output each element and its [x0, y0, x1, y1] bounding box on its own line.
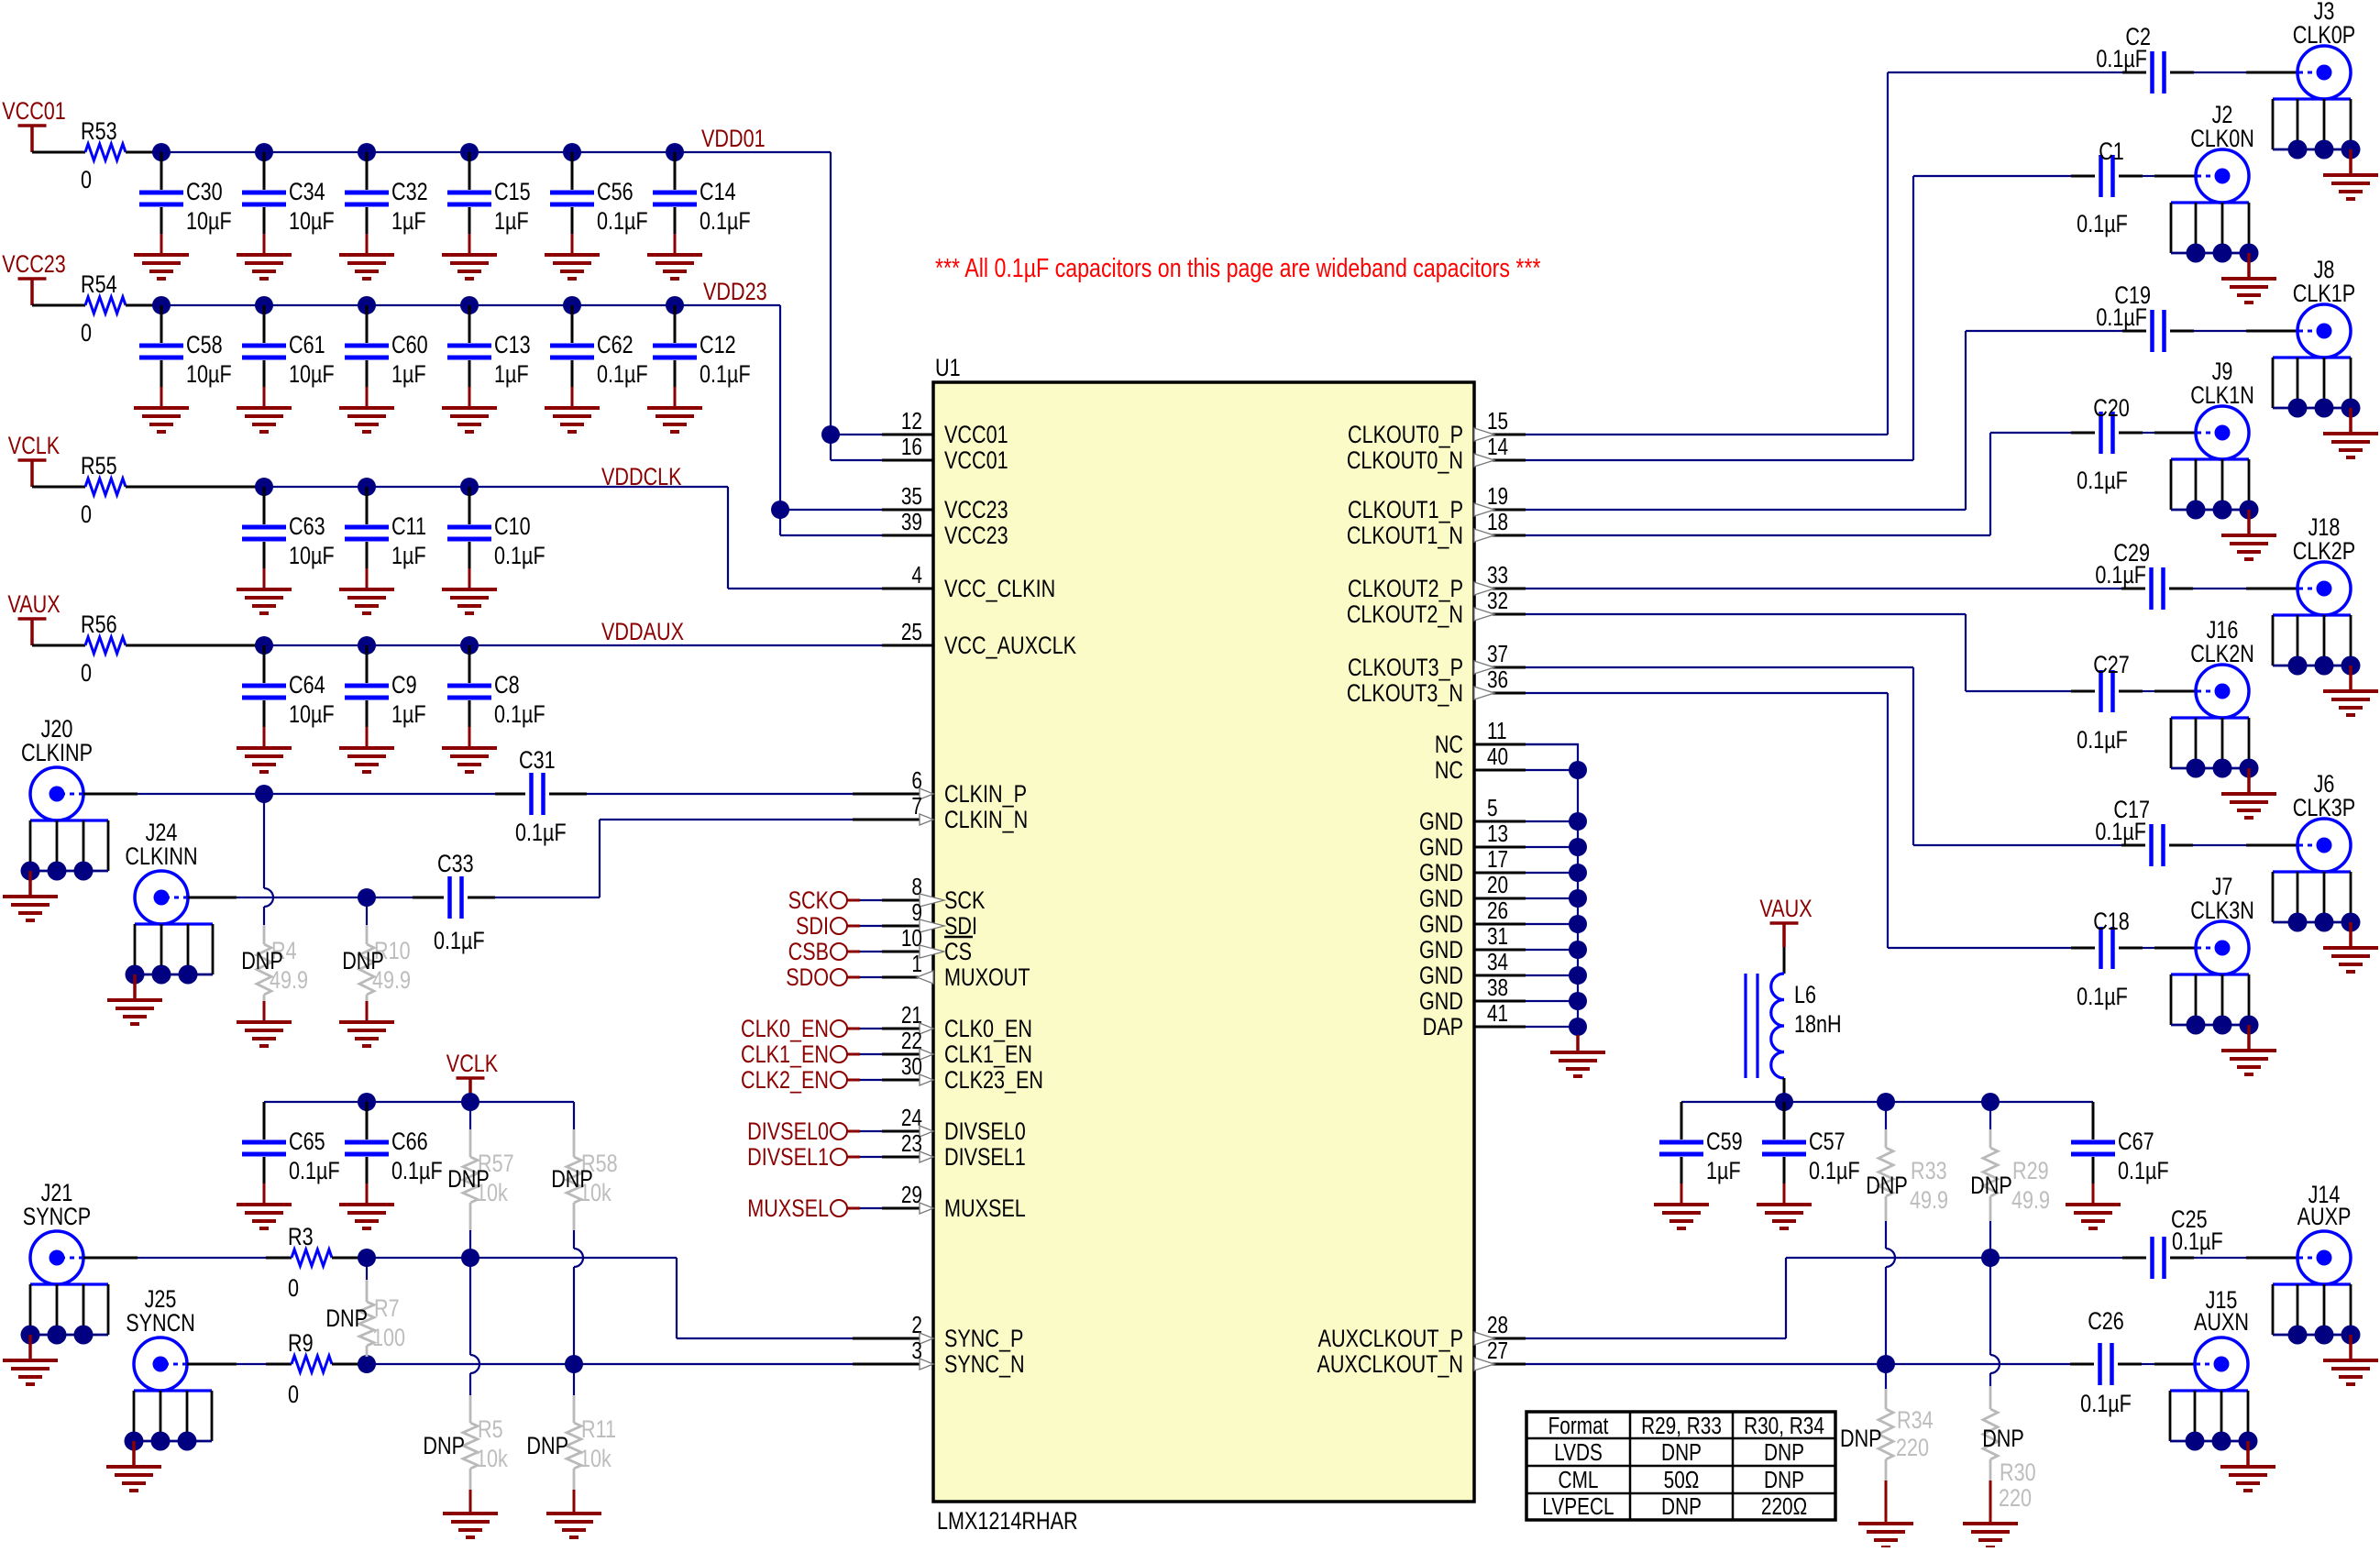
- svg-text:SDO: SDO: [786, 964, 829, 992]
- svg-text:LVPECL: LVPECL: [1542, 1493, 1614, 1520]
- svg-text:17: 17: [1487, 846, 1508, 873]
- power symbol VCLK: [8, 433, 61, 487]
- capacitor C33 0.1µF: [434, 851, 485, 955]
- svg-text:LMX1214RHAR: LMX1214RHAR: [937, 1508, 1078, 1535]
- capacitor C67 0.1µF: [2071, 1102, 2169, 1205]
- capacitor C18 0.1µF: [2077, 908, 2130, 1011]
- ground: [237, 1205, 292, 1228]
- off-page port CLK0_EN: [741, 1016, 882, 1043]
- wire CLKOUT2_P: [1526, 588, 2297, 589]
- svg-text:GND: GND: [1419, 911, 1463, 939]
- svg-text:DIVSEL0: DIVSEL0: [747, 1118, 829, 1146]
- svg-text:GND: GND: [1419, 834, 1463, 862]
- svg-text:C1: C1: [2099, 138, 2124, 166]
- svg-text:220: 220: [1999, 1485, 2032, 1513]
- capacitor C59 1µF: [1659, 1102, 1743, 1205]
- svg-text:0.1µF: 0.1µF: [494, 543, 545, 570]
- ground: [443, 1513, 498, 1537]
- U1 pin 5 GND: [1419, 795, 1526, 836]
- svg-text:SYNCN: SYNCN: [126, 1310, 195, 1337]
- connector J7 CLK3N: [2171, 874, 2276, 1074]
- svg-text:VCC01: VCC01: [2, 98, 66, 126]
- svg-text:28: 28: [1487, 1312, 1508, 1338]
- wire VAUX bus: [1681, 1093, 2093, 1111]
- ground: [647, 255, 702, 279]
- svg-text:C33: C33: [437, 851, 474, 878]
- svg-text:14: 14: [1487, 434, 1508, 460]
- U1 pin 24 DIVSEL0: [882, 1105, 1026, 1146]
- off-page port SCK: [788, 887, 882, 915]
- U1 pin 31 GND: [1419, 923, 1526, 964]
- U1 pin 32 CLKOUT2_N: [1347, 588, 1526, 629]
- svg-text:R5: R5: [478, 1416, 503, 1444]
- svg-text:SCK: SCK: [788, 887, 830, 915]
- svg-text:0: 0: [81, 660, 92, 688]
- ground: [339, 408, 394, 432]
- off-page port MUXSEL: [747, 1195, 882, 1223]
- wire NC-GND-DAP bus: [1526, 744, 1587, 1052]
- U1 pin 12 VCC01: [882, 408, 1008, 449]
- svg-text:CLKOUT3_N: CLKOUT3_N: [1347, 680, 1463, 708]
- svg-text:25: 25: [901, 619, 922, 645]
- capacitor C27 0.1µF: [2077, 652, 2130, 754]
- svg-text:C63: C63: [289, 513, 325, 541]
- svg-text:CLKOUT0_N: CLKOUT0_N: [1347, 447, 1463, 475]
- wire CLKOUT0_N: [1526, 176, 2196, 460]
- svg-text:0: 0: [81, 167, 92, 194]
- ground: [237, 589, 292, 613]
- svg-text:CML: CML: [1559, 1467, 1599, 1493]
- svg-text:VAUX: VAUX: [1759, 896, 1812, 923]
- wire CLKOUT2_N: [1526, 614, 2196, 691]
- svg-text:CLKOUT0_P: CLKOUT0_P: [1348, 422, 1463, 449]
- wire CLKOUT3_P: [1526, 667, 2297, 845]
- capacitor C58 10µF: [139, 305, 232, 408]
- resistor R34 DNP 220: [1840, 1364, 1934, 1524]
- U1 pin 27 AUXCLKOUT_N: [1317, 1337, 1526, 1379]
- capacitor C12 0.1µF: [653, 305, 751, 408]
- svg-text:CLKIN_N: CLKIN_N: [944, 807, 1028, 834]
- off-page port SDO: [786, 964, 882, 992]
- svg-text:35: 35: [901, 483, 922, 510]
- svg-text:CLK23_EN: CLK23_EN: [944, 1067, 1043, 1095]
- svg-text:C10: C10: [494, 513, 531, 541]
- svg-text:1: 1: [911, 951, 922, 977]
- wire CLKOUT1_N: [1526, 433, 2196, 535]
- ground: [339, 255, 394, 279]
- U1 pin 2 SYNC_P: [882, 1312, 1023, 1353]
- resistor R3 0: [83, 1224, 367, 1303]
- svg-text:C66: C66: [391, 1128, 428, 1156]
- svg-text:C14: C14: [700, 179, 736, 206]
- svg-text:0.1µF: 0.1µF: [2077, 727, 2128, 754]
- capacitor C63 10µF: [242, 487, 335, 589]
- ground: [2066, 1205, 2121, 1228]
- svg-text:10µF: 10µF: [289, 208, 335, 236]
- svg-text:MUXOUT: MUXOUT: [944, 964, 1030, 992]
- svg-text:DNP: DNP: [342, 948, 384, 975]
- power symbol VCC01: [2, 98, 66, 152]
- ground: [1654, 1205, 1709, 1228]
- U1 pin 14 CLKOUT0_N: [1347, 434, 1526, 475]
- ground: [442, 589, 497, 613]
- U1 pin 19 CLKOUT1_P: [1348, 483, 1526, 524]
- U1 pin 16 VCC01: [882, 434, 1008, 475]
- svg-text:220Ω: 220Ω: [1761, 1493, 1807, 1520]
- wire CLKINN: [188, 820, 882, 907]
- ground: [237, 408, 292, 432]
- U1 pin 30 CLK23_EN: [882, 1053, 1043, 1095]
- capacitor C26 0.1µF: [2080, 1308, 2132, 1418]
- svg-text:0.1µF: 0.1µF: [597, 361, 648, 389]
- connector J16 CLK2N: [2171, 617, 2276, 818]
- svg-text:39: 39: [901, 509, 922, 535]
- U1 pin 1 MUXOUT: [882, 951, 1030, 992]
- svg-text:R34: R34: [1897, 1407, 1934, 1435]
- resistor R58 DNP 10k: [551, 1102, 617, 1364]
- svg-text:GND: GND: [1419, 886, 1463, 913]
- svg-text:DNP: DNP: [1764, 1439, 1804, 1466]
- ground: [1858, 1524, 1913, 1547]
- svg-text:R3: R3: [288, 1224, 314, 1251]
- svg-text:0.1µF: 0.1µF: [391, 1158, 443, 1185]
- connector J25 SYNCN: [106, 1286, 212, 1491]
- ground: [647, 408, 702, 432]
- svg-text:1µF: 1µF: [391, 701, 426, 729]
- U1 pin 3 SYNC_N: [882, 1337, 1025, 1379]
- U1 pin 26 GND: [1419, 897, 1526, 939]
- svg-text:220: 220: [1896, 1435, 1929, 1462]
- table output format options: [1526, 1412, 1835, 1520]
- connector J6 CLK3P: [2273, 771, 2378, 972]
- U1 pin 6 CLKIN_P: [882, 767, 1027, 809]
- U1 pin 15 CLKOUT0_P: [1348, 408, 1526, 449]
- svg-text:VCC_CLKIN: VCC_CLKIN: [944, 576, 1055, 603]
- svg-text:CLKOUT1_N: CLKOUT1_N: [1347, 523, 1463, 550]
- wire SYNCN: [358, 1355, 882, 1373]
- svg-text:38: 38: [1487, 974, 1508, 1001]
- svg-text:13: 13: [1487, 820, 1508, 847]
- svg-text:16: 16: [901, 434, 922, 460]
- svg-text:1µF: 1µF: [494, 361, 529, 389]
- ground: [339, 589, 394, 613]
- note wideband capacitors: [935, 252, 1541, 282]
- svg-text:C27: C27: [2093, 652, 2130, 679]
- svg-text:CLK0P: CLK0P: [2293, 22, 2355, 50]
- svg-text:AUXCLKOUT_P: AUXCLKOUT_P: [1318, 1326, 1463, 1353]
- net label VDD23: [703, 279, 767, 306]
- U1 pin 25 VCC_AUXCLK: [882, 619, 1077, 660]
- svg-text:10µF: 10µF: [289, 701, 335, 729]
- U1 pin 40 NC: [1435, 743, 1526, 785]
- svg-text:C59: C59: [1706, 1128, 1743, 1156]
- U1 pin 22 CLK1_EN: [882, 1028, 1032, 1069]
- capacitor C8 0.1µF: [447, 645, 545, 748]
- svg-text:DNP: DNP: [423, 1433, 465, 1460]
- capacitor C60 1µF: [345, 305, 428, 408]
- svg-text:49.9: 49.9: [2011, 1187, 2050, 1215]
- svg-text:0.1µF: 0.1µF: [494, 701, 545, 729]
- svg-text:DNP: DNP: [1840, 1425, 1882, 1453]
- wire AUXCLKOUT_P: [1526, 1249, 2297, 1338]
- capacitor C1 0.1µF: [2077, 138, 2128, 238]
- svg-text:CLK0_EN: CLK0_EN: [741, 1016, 829, 1043]
- inductor L6 18nH: [1746, 947, 1842, 1102]
- resistor R53 0: [32, 118, 161, 194]
- svg-text:GND: GND: [1419, 860, 1463, 887]
- wire VDDCLK rail: [255, 478, 728, 496]
- resistor R4 DNP 49.9: [241, 794, 308, 1022]
- svg-text:SDI: SDI: [796, 913, 829, 941]
- svg-text:27: 27: [1487, 1337, 1508, 1364]
- ground: [1550, 1052, 1605, 1076]
- net label VDDCLK: [601, 464, 682, 491]
- capacitor C29 0.1µF: [2095, 540, 2163, 610]
- svg-text:GND: GND: [1419, 937, 1463, 964]
- svg-text:NC: NC: [1435, 732, 1463, 759]
- ground: [237, 255, 292, 279]
- svg-text:DNP: DNP: [241, 948, 283, 975]
- svg-text:DNP: DNP: [1661, 1493, 1702, 1520]
- svg-text:SYNCP: SYNCP: [23, 1204, 91, 1231]
- capacitor C61 10µF: [242, 305, 335, 408]
- connector J3 CLK0P: [2273, 0, 2378, 199]
- ground: [442, 255, 497, 279]
- off-page port SDI: [796, 913, 882, 941]
- capacitor C66 0.1µF: [345, 1102, 443, 1205]
- svg-text:0.1µF: 0.1µF: [2077, 468, 2128, 495]
- svg-text:11: 11: [1487, 718, 1507, 744]
- svg-text:C31: C31: [519, 747, 556, 775]
- svg-text:0.1µF: 0.1µF: [700, 208, 751, 236]
- svg-text:GND: GND: [1419, 988, 1463, 1016]
- U1 pin 20 GND: [1419, 872, 1526, 913]
- svg-text:VCC01: VCC01: [944, 422, 1008, 449]
- U1 pin 34 GND: [1419, 949, 1526, 990]
- svg-text:31: 31: [1487, 923, 1508, 950]
- svg-text:C32: C32: [391, 179, 428, 206]
- svg-text:4: 4: [911, 562, 922, 589]
- resistor R56 0: [32, 611, 264, 688]
- capacitor C57 0.1µF: [1762, 1102, 1860, 1205]
- svg-text:49.9: 49.9: [1910, 1187, 1948, 1215]
- svg-text:VCC23: VCC23: [944, 497, 1008, 524]
- capacitor C2 0.1µF: [2096, 24, 2164, 94]
- svg-text:10µF: 10µF: [186, 361, 232, 389]
- U1 pin 17 GND: [1419, 846, 1526, 887]
- ground: [442, 748, 497, 772]
- svg-text:C67: C67: [2118, 1128, 2154, 1156]
- svg-text:VDDAUX: VDDAUX: [601, 619, 684, 646]
- svg-text:VDD01: VDD01: [701, 126, 766, 153]
- wire VDD01 to U1 pins 12,16: [821, 152, 882, 460]
- svg-text:C20: C20: [2093, 395, 2130, 423]
- U1 pin 11 NC: [1435, 718, 1526, 759]
- svg-text:C60: C60: [391, 332, 428, 359]
- capacitor C17 0.1µF: [2095, 797, 2163, 866]
- ground: [1757, 1205, 1812, 1228]
- wire CLKINP: [83, 785, 882, 803]
- svg-text:0.1µF: 0.1µF: [2096, 46, 2147, 73]
- svg-text:C65: C65: [289, 1128, 325, 1156]
- capacitor C25 0.1µF: [2153, 1206, 2223, 1279]
- wire VDDAUX rail: [255, 636, 882, 655]
- svg-text:0.1µF: 0.1µF: [1809, 1158, 1860, 1185]
- svg-text:CLKOUT1_P: CLKOUT1_P: [1348, 497, 1463, 524]
- svg-text:C8: C8: [494, 672, 520, 699]
- svg-text:CLK2P: CLK2P: [2293, 538, 2355, 566]
- svg-text:LVDS: LVDS: [1554, 1439, 1603, 1466]
- svg-text:C30: C30: [186, 179, 223, 206]
- svg-text:C56: C56: [597, 179, 634, 206]
- capacitor C64 10µF: [242, 645, 335, 748]
- svg-text:0.1µF: 0.1µF: [434, 928, 485, 955]
- svg-text:VCC_AUXCLK: VCC_AUXCLK: [944, 633, 1077, 660]
- svg-text:DNP: DNP: [1866, 1172, 1908, 1200]
- capacitor C19 0.1µF: [2096, 282, 2164, 352]
- svg-text:VCC01: VCC01: [944, 447, 1008, 475]
- off-page port CLK1_EN: [741, 1041, 882, 1069]
- resistor R9 0: [187, 1330, 367, 1409]
- U1 pin 37 CLKOUT3_P: [1348, 641, 1526, 682]
- svg-text:CLK2_EN: CLK2_EN: [741, 1067, 829, 1095]
- svg-text:C18: C18: [2093, 908, 2130, 936]
- svg-text:DNP: DNP: [1982, 1425, 2024, 1453]
- svg-text:1µF: 1µF: [391, 543, 426, 570]
- svg-text:CLK0_EN: CLK0_EN: [944, 1016, 1032, 1043]
- svg-text:10µF: 10µF: [289, 361, 335, 389]
- svg-text:CLK3N: CLK3N: [2190, 897, 2254, 925]
- svg-text:CLK3P: CLK3P: [2293, 795, 2355, 822]
- svg-text:C34: C34: [289, 179, 325, 206]
- capacitor C10 0.1µF: [447, 487, 545, 589]
- svg-text:R53: R53: [81, 118, 117, 146]
- svg-text:VDDCLK: VDDCLK: [601, 464, 682, 491]
- svg-text:0.1µF: 0.1µF: [2172, 1228, 2223, 1256]
- svg-text:CLK1P: CLK1P: [2293, 281, 2355, 308]
- connector J20 CLKINP: [3, 716, 108, 920]
- ground: [339, 1205, 394, 1228]
- svg-text:CLKINP: CLKINP: [21, 740, 93, 767]
- svg-text:VCC23: VCC23: [944, 523, 1008, 550]
- resistor R54 0: [32, 271, 161, 347]
- capacitor C15 1µF: [447, 152, 531, 255]
- off-page port CSB: [788, 939, 882, 966]
- svg-text:0.1µF: 0.1µF: [2095, 562, 2146, 589]
- svg-text:C61: C61: [289, 332, 325, 359]
- capacitor C20 0.1µF: [2077, 395, 2130, 495]
- U1 pin 8 SCK: [882, 874, 986, 915]
- svg-text:12: 12: [901, 408, 922, 435]
- ground: [237, 1022, 292, 1046]
- svg-text:0: 0: [288, 1381, 299, 1409]
- net label VDD01: [701, 126, 766, 153]
- svg-text:C62: C62: [597, 332, 634, 359]
- svg-text:C12: C12: [700, 332, 736, 359]
- svg-text:AUXCLKOUT_N: AUXCLKOUT_N: [1317, 1351, 1463, 1379]
- ground: [442, 408, 497, 432]
- svg-text:AUXN: AUXN: [2194, 1309, 2249, 1337]
- svg-text:20: 20: [1487, 872, 1508, 898]
- resistor R33 DNP 49.9: [1866, 1102, 1948, 1364]
- svg-text:18: 18: [1487, 509, 1508, 535]
- svg-text:0.1µF: 0.1µF: [515, 820, 567, 847]
- capacitor C30 10µF: [139, 152, 232, 255]
- svg-text:U1: U1: [935, 355, 961, 382]
- wire CLKOUT3_N: [1526, 693, 2196, 948]
- ground: [1963, 1524, 2018, 1547]
- svg-text:0.1µF: 0.1µF: [289, 1158, 340, 1185]
- svg-text:DIVSEL1: DIVSEL1: [944, 1144, 1026, 1172]
- svg-text:0.1µF: 0.1µF: [2080, 1391, 2132, 1418]
- capacitor C13 1µF: [447, 305, 531, 408]
- resistor R55 0: [32, 453, 264, 529]
- svg-text:R56: R56: [81, 611, 117, 639]
- wire VCLK bus: [264, 1093, 574, 1111]
- U1 pin 41 DAP: [1423, 1000, 1526, 1041]
- svg-text:C58: C58: [186, 332, 223, 359]
- svg-text:CLK1N: CLK1N: [2190, 382, 2254, 410]
- svg-text:CLK0N: CLK0N: [2190, 126, 2254, 153]
- U1 pin 39 VCC23: [882, 509, 1008, 550]
- U1 pin 28 AUXCLKOUT_P: [1318, 1312, 1526, 1353]
- off-page port DIVSEL0: [747, 1118, 882, 1146]
- svg-text:DIVSEL0: DIVSEL0: [944, 1118, 1026, 1146]
- U1 pin 7 CLKIN_N: [882, 793, 1028, 834]
- svg-text:CSB: CSB: [788, 939, 829, 966]
- svg-text:10k: 10k: [579, 1446, 612, 1473]
- capacitor C14 0.1µF: [653, 152, 751, 255]
- svg-text:R7: R7: [374, 1295, 400, 1323]
- U1 pin 35 VCC23: [882, 483, 1008, 524]
- svg-text:GND: GND: [1419, 809, 1463, 836]
- svg-text:R9: R9: [288, 1330, 314, 1358]
- capacitor C31 0.1µF: [515, 747, 567, 847]
- wire AUXCLKOUT_N: [1526, 1355, 2195, 1373]
- connector J24 CLKINN: [107, 820, 213, 1024]
- svg-text:CLKIN_P: CLKIN_P: [944, 781, 1027, 809]
- svg-text:10k: 10k: [476, 1446, 508, 1473]
- svg-text:DAP: DAP: [1423, 1014, 1463, 1041]
- svg-text:DIVSEL1: DIVSEL1: [747, 1144, 829, 1172]
- IC U1 LMX1214RHAR: [933, 355, 1474, 1535]
- svg-text:SCK: SCK: [944, 887, 986, 915]
- svg-text:VCC23: VCC23: [2, 251, 66, 279]
- power symbol VCLK: [446, 1051, 499, 1102]
- svg-text:VDD23: VDD23: [703, 279, 767, 306]
- svg-text:R30, R34: R30, R34: [1744, 1413, 1824, 1439]
- svg-text:CLKOUT2_N: CLKOUT2_N: [1347, 601, 1463, 629]
- capacitor C34 10µF: [242, 152, 335, 255]
- wire VDDCLK to U1 pin 4: [728, 487, 882, 589]
- svg-text:R29, R33: R29, R33: [1641, 1413, 1722, 1439]
- svg-text:R11: R11: [581, 1416, 616, 1444]
- svg-text:0.1µF: 0.1µF: [2096, 304, 2147, 332]
- U1 pin 36 CLKOUT3_N: [1347, 666, 1526, 708]
- power symbol VAUX: [1759, 896, 1812, 947]
- svg-text:1µF: 1µF: [391, 361, 426, 389]
- svg-text:DNP: DNP: [551, 1166, 593, 1194]
- svg-text:CLK2N: CLK2N: [2190, 641, 2254, 668]
- svg-text:37: 37: [1487, 641, 1508, 667]
- ground: [237, 748, 292, 772]
- svg-text:5: 5: [1487, 795, 1498, 821]
- svg-text:CLKINN: CLKINN: [125, 843, 197, 871]
- wire VDD23 rail: [152, 296, 780, 314]
- svg-text:C11: C11: [391, 513, 426, 541]
- svg-text:NC: NC: [1435, 757, 1463, 785]
- capacitor C11 1µF: [345, 487, 426, 589]
